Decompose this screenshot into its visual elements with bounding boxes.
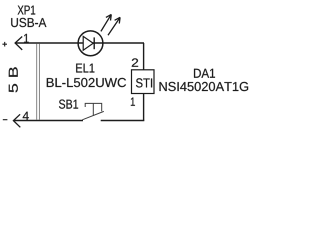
connector XP1 pin 1 arrow <box>15 37 22 50</box>
wire bottom rail right segment <box>101 120 145 122</box>
connector XP1 pin 4 arrow <box>13 114 20 127</box>
switch SB1 button cap <box>85 103 102 111</box>
wire bottom rail left segment <box>14 120 84 122</box>
switch SB1 movable contact <box>82 111 104 119</box>
label 5 V (rotated) <box>9 67 18 92</box>
pin 1 STI <box>131 98 135 106</box>
label XP1 <box>18 6 36 15</box>
label NSI45020AT1G <box>160 82 249 91</box>
label SB1 <box>59 100 78 109</box>
pin 1 top <box>24 34 29 43</box>
minus polarity mark <box>3 119 8 121</box>
label EL1 <box>76 64 94 73</box>
label USB-A <box>11 18 46 27</box>
connector XP1 group line (double) <box>36 44 38 121</box>
pin 4 bottom <box>23 112 29 120</box>
LED emission arrow 2 <box>108 17 120 35</box>
LED emission arrow 1 <box>101 14 111 31</box>
label BL-L502UWC <box>47 78 126 87</box>
STI box DA1 <box>132 70 155 94</box>
wire right drop to STI pin 2 <box>143 43 145 70</box>
LED EL1 circle <box>78 31 103 56</box>
label DA1 <box>194 69 215 78</box>
STI text <box>136 78 152 87</box>
LED EL1 diode triangle <box>83 36 93 50</box>
plus polarity mark <box>2 42 7 47</box>
switch SB1 stem <box>92 103 94 116</box>
wire top rail <box>15 42 144 44</box>
pin 2 STI <box>132 58 138 66</box>
LED EL1 cathode bar <box>93 37 95 49</box>
wire STI pin 1 drop <box>143 94 145 121</box>
